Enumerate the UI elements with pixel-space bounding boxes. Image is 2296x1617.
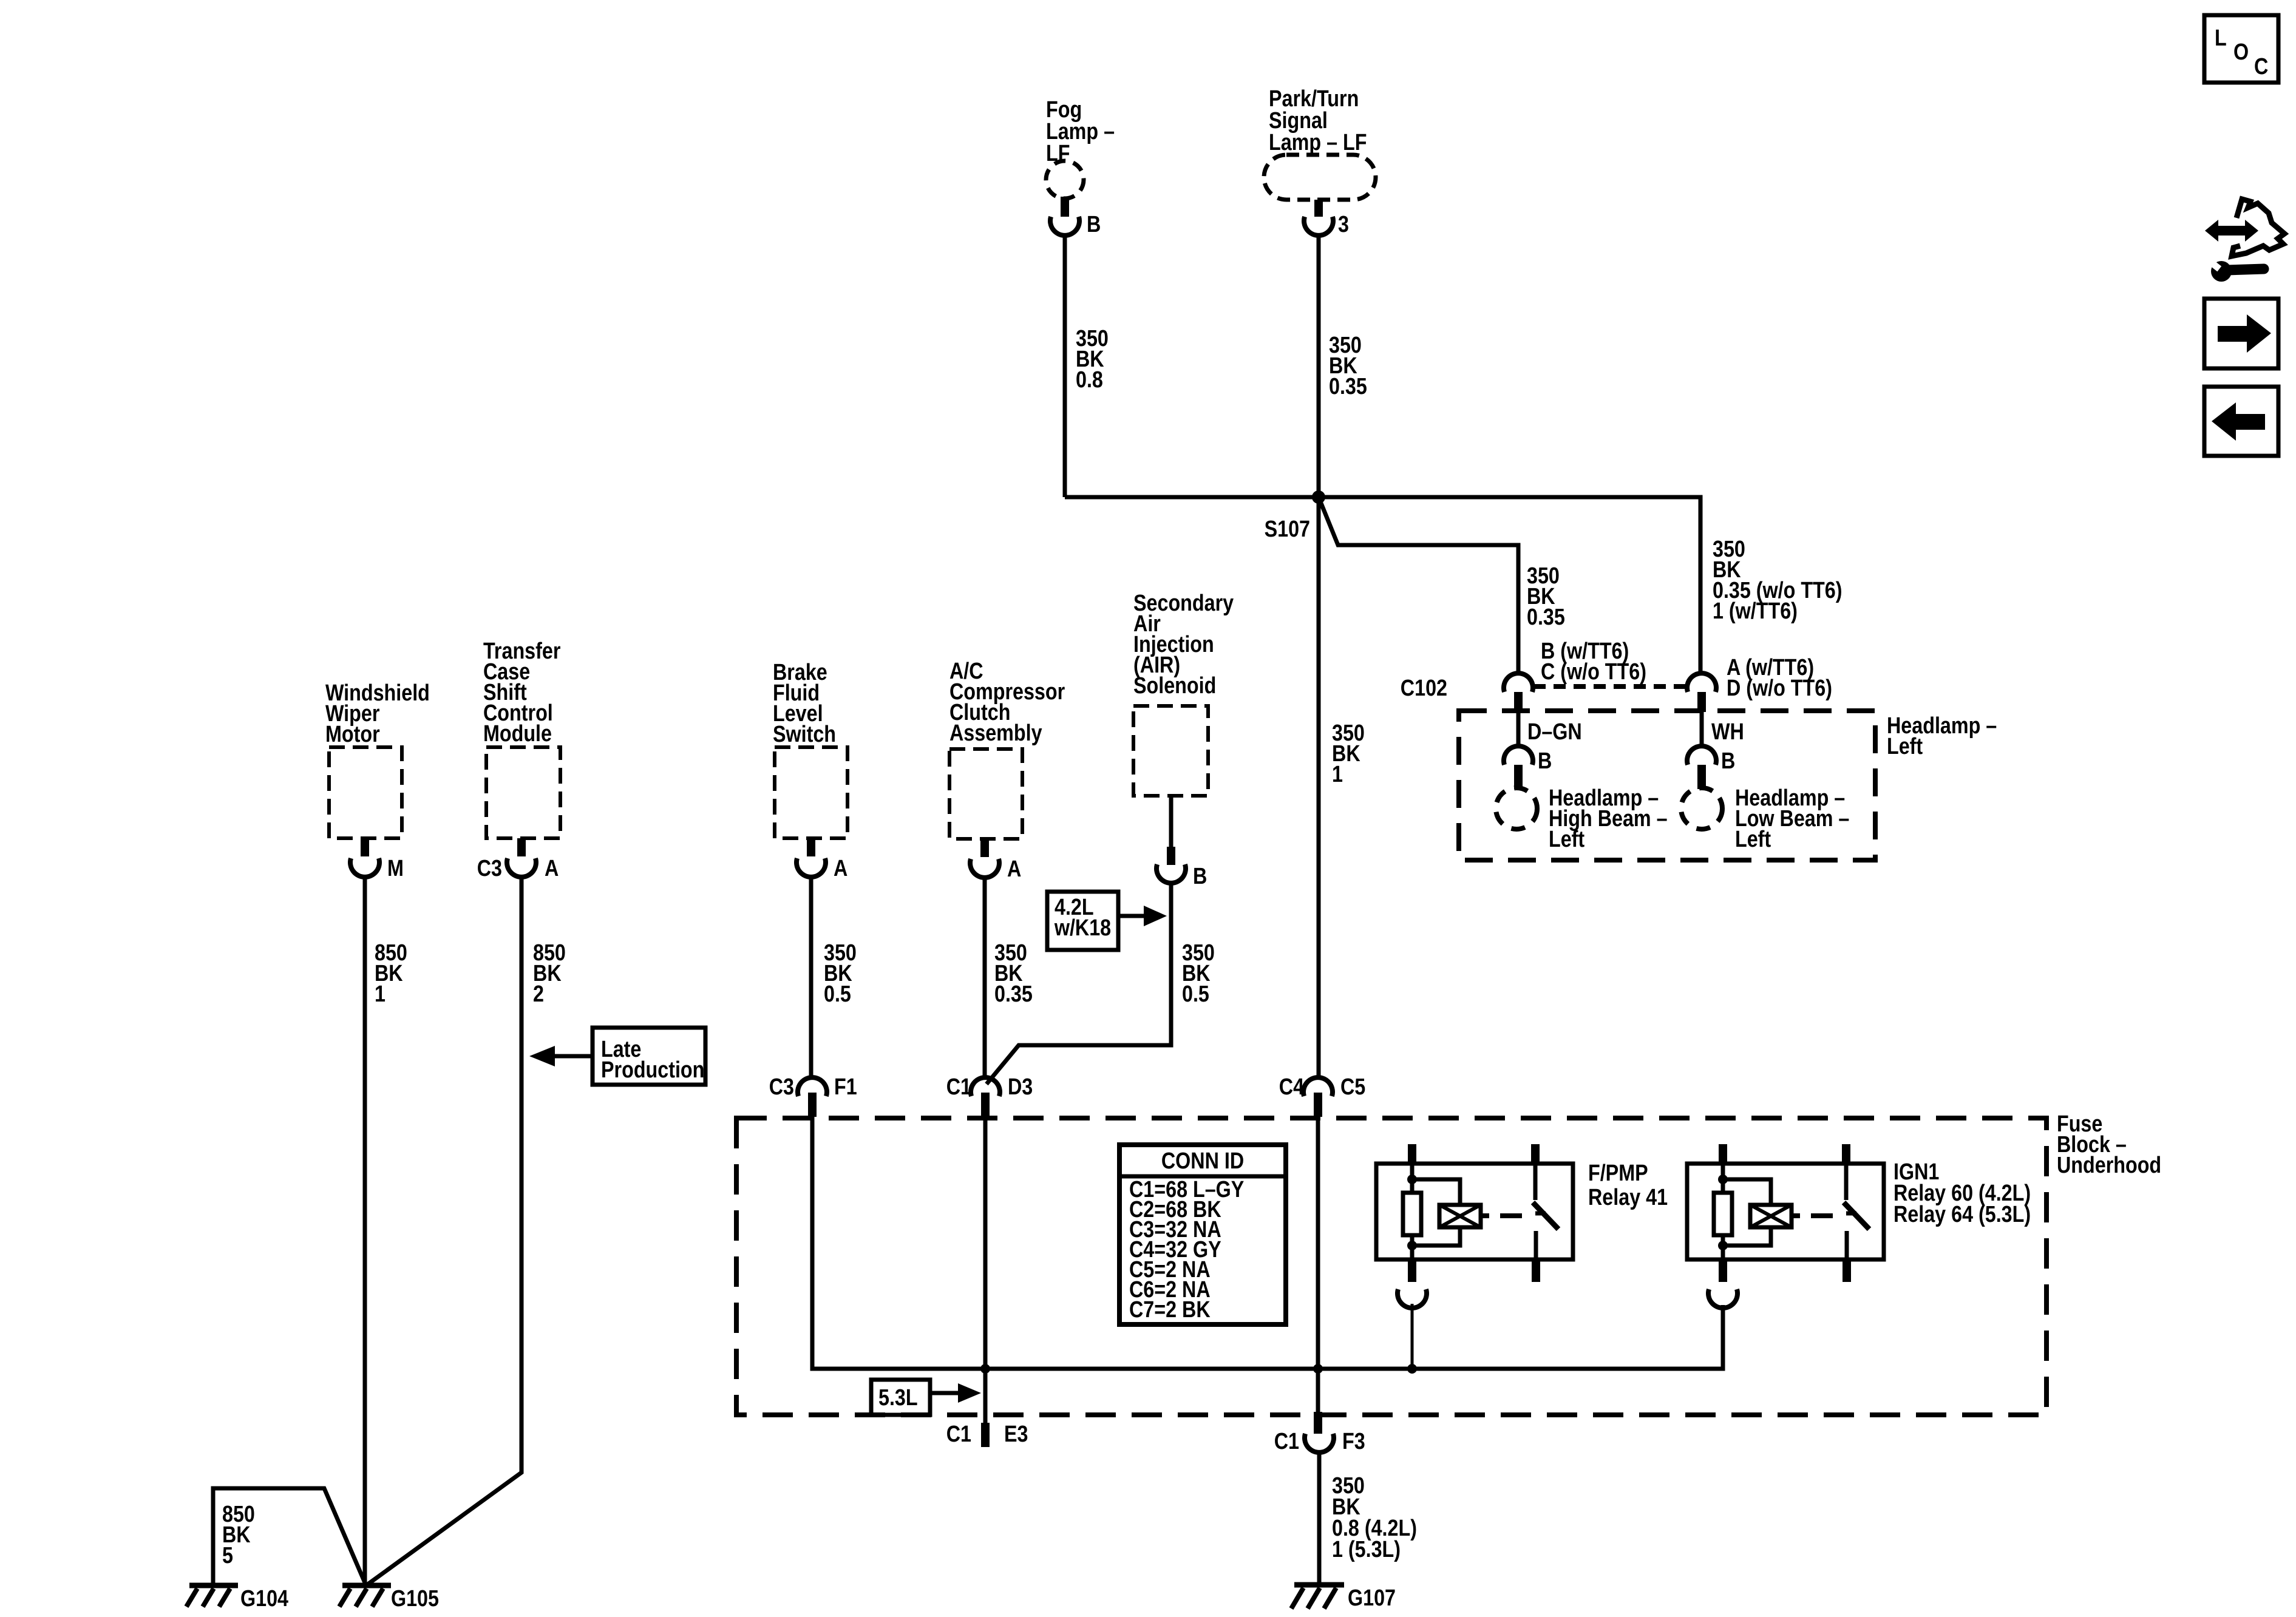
ground G107 — [1291, 1585, 1344, 1609]
fog lamp pin B — [1061, 197, 1069, 217]
a/c compressor clutch box — [949, 749, 1022, 839]
svg-text:0.5: 0.5 — [824, 981, 851, 1007]
F/PMP relay 41 — [1376, 1144, 1668, 1369]
connector M — [350, 858, 379, 877]
svg-text:G104: G104 — [240, 1586, 288, 1612]
wire (S107 to right headlamp branch) — [1319, 497, 1700, 674]
svg-text:O: O — [2233, 39, 2249, 65]
brake fluid level switch label — [773, 660, 836, 747]
svg-text:D–GN: D–GN — [1527, 719, 1582, 745]
svg-text:C (w/o TT6): C (w/o TT6) — [1541, 659, 1646, 685]
svg-text:Relay 41: Relay 41 — [1588, 1185, 1668, 1210]
connector C4 C5 (fuse block) — [1303, 1077, 1333, 1096]
junction (C1 D3 wire at bus) — [980, 1364, 990, 1374]
4.2L w/K18 tag box — [1047, 892, 1167, 950]
svg-text:CONN ID: CONN ID — [1161, 1148, 1244, 1174]
coil bottom pin stub — [1408, 1259, 1416, 1282]
secondary air injection solenoid label — [1133, 591, 1234, 699]
transfer case pin C3 A — [517, 838, 526, 856]
fog lamp LF symbol — [1046, 161, 1084, 198]
headlamp-left dashed box — [1459, 711, 1875, 860]
svg-text:3: 3 — [1338, 212, 1349, 237]
svg-text:C5: C5 — [1340, 1074, 1365, 1100]
connector B (fog lamp) — [1050, 217, 1079, 236]
relay box — [1687, 1164, 1884, 1259]
svg-text:2: 2 — [533, 981, 544, 1007]
switch contact — [1844, 1164, 1849, 1200]
svg-text:C3: C3 — [769, 1074, 794, 1100]
windshield wiper motor box — [329, 747, 402, 838]
connector B (high beam) — [1504, 746, 1533, 765]
svg-text:Solenoid: Solenoid — [1133, 673, 1216, 699]
svg-text:A: A — [1007, 856, 1021, 882]
coil bottom pin stub — [1719, 1259, 1727, 1282]
connector C102 dashed shell line — [1533, 684, 1685, 689]
svg-text:C4: C4 — [1279, 1074, 1305, 1100]
svg-text:C102: C102 — [1401, 676, 1447, 701]
wiper motor pin M — [361, 838, 369, 856]
a/c compressor clutch assembly label — [949, 659, 1065, 746]
svg-text:Relay 64 (5.3L): Relay 64 (5.3L) — [1894, 1202, 2031, 1227]
svg-text:C3: C3 — [477, 856, 502, 881]
vehicle diagnostic icon (double arrow, body outline, wrench) — [2205, 199, 2284, 282]
wire 350 BK to G107 — [1317, 1452, 1322, 1585]
svg-text:C1: C1 — [946, 1074, 971, 1100]
coil top pin stub — [1408, 1144, 1416, 1164]
AIR pin B — [1167, 847, 1175, 865]
wire label 350 BK 1 (trunk to fuse block) — [1332, 720, 1365, 787]
relay box — [1376, 1164, 1573, 1259]
wire WH (low beam) — [1700, 712, 1704, 745]
windshield wiper motor label — [325, 680, 430, 747]
relay coil element — [1750, 1205, 1792, 1227]
wire (C1 D3 through fuse block to C1 E3) — [983, 1117, 988, 1423]
svg-text:B: B — [1193, 864, 1207, 889]
brake switch pin A — [807, 838, 815, 856]
svg-text:5: 5 — [222, 1543, 233, 1568]
secondary air injection solenoid box — [1133, 706, 1208, 796]
svg-text:Left: Left — [1887, 734, 1923, 759]
svg-text:0.8: 0.8 — [1076, 367, 1103, 393]
switch top pin stub — [1842, 1144, 1850, 1164]
connector C1 F3 — [1314, 1412, 1322, 1434]
resistor (coil suppression) — [1714, 1193, 1732, 1235]
wire (C3 F1 to ground bus) — [812, 1117, 985, 1369]
svg-text:Left: Left — [1735, 827, 1771, 852]
svg-text:Switch: Switch — [773, 722, 836, 747]
svg-text:5.3L: 5.3L — [878, 1385, 918, 1411]
splice S107 — [1312, 490, 1325, 504]
svg-text:Motor: Motor — [325, 722, 380, 747]
svg-text:S107: S107 — [1265, 517, 1310, 542]
park/turn signal lamp LF label — [1269, 86, 1367, 155]
coil connector — [1708, 1289, 1737, 1308]
fog lamp LF label — [1046, 97, 1115, 166]
svg-text:A: A — [545, 856, 559, 881]
svg-text:0.35: 0.35 — [994, 981, 1033, 1007]
wire 850 BK 1 — [363, 876, 367, 1585]
coil branch wire — [1721, 1164, 1725, 1193]
svg-text:1 (5.3L): 1 (5.3L) — [1332, 1537, 1401, 1562]
connector 3 (park/turn lamp) — [1304, 217, 1333, 236]
coil branch wire — [1410, 1164, 1415, 1193]
svg-text:C1: C1 — [1274, 1429, 1299, 1454]
relay coil element — [1439, 1205, 1481, 1227]
junction dot bottom — [1407, 1241, 1417, 1250]
coil connector — [1398, 1289, 1427, 1308]
ground bus inside fuse block — [985, 1305, 1723, 1369]
wire 350 BK 0.35 (a/c) — [983, 876, 987, 1079]
actuator dashed link — [1792, 1213, 1800, 1218]
CONN ID table — [1119, 1145, 1286, 1324]
svg-text:WH: WH — [1711, 719, 1744, 745]
svg-text:F1: F1 — [834, 1074, 857, 1100]
svg-text:1 (w/TT6): 1 (w/TT6) — [1713, 598, 1798, 624]
switch contact — [1533, 1164, 1538, 1200]
svg-text:D3: D3 — [1008, 1074, 1033, 1100]
connector A (a/c compressor) — [970, 859, 999, 878]
connector C102 right cavity — [1687, 673, 1716, 692]
wire 350 BK 0.5 (AIR solenoid) — [987, 881, 1171, 1084]
a/c pin A — [980, 839, 989, 857]
svg-text:G107: G107 — [1348, 1585, 1396, 1611]
connector B (low beam) — [1687, 746, 1716, 765]
wire 350 BK 0.5 (brake switch) — [809, 876, 813, 1079]
connector C3 F1 (fuse block) — [798, 1077, 827, 1096]
LOC legend box — [2204, 15, 2278, 83]
connector C1 D3 (fuse block) — [971, 1077, 1000, 1096]
connector B (AIR solenoid) — [1156, 864, 1186, 883]
next-page arrow box — [2204, 299, 2278, 368]
svg-text:Lamp – LF: Lamp – LF — [1269, 130, 1367, 155]
IGN1 relay 60/64 — [1687, 1144, 2031, 1308]
headlamp high beam left bulb — [1496, 788, 1537, 829]
transfer case shift control module box — [486, 747, 560, 838]
wire label 350 BK 0.35 (high beam branch) — [1527, 563, 1565, 630]
svg-text:Underhood: Underhood — [2057, 1153, 2161, 1178]
svg-text:E3: E3 — [1004, 1422, 1028, 1447]
junction (F/PMP relay coil at bus) — [1407, 1364, 1417, 1374]
svg-text:Left: Left — [1549, 827, 1584, 852]
svg-text:C: C — [2254, 54, 2268, 80]
resistor (coil suppression) — [1403, 1193, 1421, 1235]
svg-text:L: L — [2215, 25, 2227, 51]
actuator dashed link — [1481, 1213, 1489, 1218]
svg-text:1: 1 — [375, 981, 385, 1007]
svg-text:D (w/o TT6): D (w/o TT6) — [1727, 676, 1832, 701]
wire from AIR solenoid — [1169, 796, 1173, 849]
headlamp low beam left bulb — [1681, 788, 1722, 829]
svg-text:C1: C1 — [946, 1422, 971, 1447]
connector C1 E3 (pass-through pin) — [981, 1423, 990, 1447]
svg-text:M: M — [387, 856, 404, 881]
coil top pin stub — [1719, 1144, 1727, 1164]
coil wire to ground bus — [1411, 1304, 1414, 1369]
park/turn signal lamp LF symbol — [1264, 155, 1376, 200]
wire (C4 C5 through fuse block to C1 F3) — [1316, 1117, 1320, 1414]
junction dot bottom — [1718, 1241, 1728, 1250]
fuse block underhood dashed box — [736, 1118, 2046, 1415]
late production tag box — [529, 1028, 705, 1085]
5.3L tag box — [871, 1380, 981, 1415]
ground G104 — [186, 1585, 238, 1607]
coil parallel branch — [1723, 1179, 1771, 1205]
svg-text:0.35: 0.35 — [1329, 374, 1367, 399]
wire 350 BK 0.8 (fog lamp ground) — [1063, 236, 1067, 497]
ground G105 — [339, 1585, 391, 1607]
previous-page arrow box — [2204, 387, 2278, 456]
svg-text:w/K18: w/K18 — [1054, 915, 1111, 941]
park/turn lamp pin 3 — [1314, 200, 1323, 217]
svg-text:Module: Module — [483, 721, 552, 747]
svg-text:F/PMP: F/PMP — [1588, 1161, 1648, 1186]
svg-text:B: B — [1538, 748, 1552, 774]
wire label 350 BK (low beam branch) — [1713, 537, 1842, 624]
svg-text:A: A — [834, 856, 847, 881]
junction dot top — [1407, 1175, 1417, 1184]
wire 850 BK 2 — [366, 876, 521, 1585]
coil parallel branch — [1412, 1179, 1460, 1205]
svg-text:F3: F3 — [1342, 1429, 1365, 1454]
switch bottom pin stub — [1532, 1259, 1540, 1282]
wire 850 BK 5 (G104 to G105) — [213, 1488, 366, 1585]
svg-text:Production: Production — [601, 1057, 704, 1083]
switch bottom pin stub — [1843, 1259, 1851, 1282]
svg-text:1: 1 — [1332, 762, 1343, 787]
brake fluid level switch box — [775, 747, 847, 838]
svg-text:0.35: 0.35 — [1527, 605, 1565, 630]
connector C3 A — [507, 858, 536, 877]
wire (fog lamp to S107) — [1065, 495, 1319, 500]
wire (S107 to left headlamp branch) — [1319, 497, 1518, 674]
svg-text:C7=2 BK: C7=2 BK — [1129, 1297, 1211, 1323]
transfer case shift control module label — [483, 639, 561, 747]
connector A (brake switch) — [796, 858, 826, 877]
svg-text:Assembly: Assembly — [949, 720, 1042, 746]
svg-text:0.5: 0.5 — [1182, 981, 1209, 1007]
junction dot top — [1718, 1175, 1728, 1184]
junction (C4 C5 wire at bus) — [1313, 1364, 1323, 1374]
svg-text:G105: G105 — [391, 1586, 439, 1612]
wire D-GN (high beam) — [1517, 712, 1521, 745]
svg-text:B: B — [1087, 212, 1101, 237]
switch top pin stub — [1531, 1144, 1540, 1164]
svg-text:B: B — [1721, 748, 1735, 774]
wire 350 BK 0.35 (park/turn ground) — [1317, 236, 1321, 1077]
